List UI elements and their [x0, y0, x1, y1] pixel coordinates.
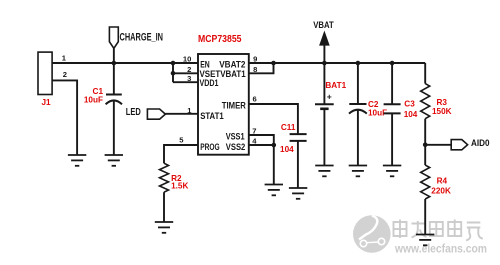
- ground (J1 pin2): [68, 155, 86, 166]
- svg-text:VBAT: VBAT: [313, 20, 334, 31]
- svg-text:C3: C3: [404, 100, 415, 109]
- wire IC pin6 to C11: [249, 104, 298, 134]
- wire LED tag to IC pin1: [165, 113, 198, 115]
- resistor R3: [421, 84, 430, 166]
- svg-text:C11: C11: [281, 123, 296, 132]
- ground (C1): [105, 155, 123, 166]
- junction CHARGE_IN/C1 on rail: [112, 61, 117, 66]
- ground (R2): [155, 222, 173, 233]
- svg-text:PROG: PROG: [200, 142, 220, 153]
- battery BAT1: [315, 63, 334, 166]
- svg-text:R3: R3: [437, 98, 448, 107]
- ground (BAT1): [315, 166, 333, 177]
- svg-text:2: 2: [63, 70, 67, 79]
- svg-text:3: 3: [187, 74, 191, 83]
- svg-text:TIMER: TIMER: [222, 100, 246, 111]
- wire rail corner into R3: [424, 63, 426, 84]
- svg-text:www.elecfans.com: www.elecfans.com: [394, 244, 487, 256]
- junction C2 on rail: [356, 61, 361, 66]
- svg-text:+: +: [327, 92, 332, 102]
- svg-text:R4: R4: [437, 177, 448, 186]
- power port CHARGE_IN: [109, 27, 118, 63]
- op-amp/IC U1 MCP73855 body: [198, 54, 249, 155]
- svg-text:VDD1: VDD1: [200, 78, 220, 89]
- svg-text:104: 104: [404, 110, 418, 119]
- wire IC pin8 riser: [249, 63, 274, 73]
- wire IC pin5 to R2: [164, 145, 198, 163]
- port tag AID0: [451, 140, 467, 150]
- wire IC pin7/pin4 to ground: [249, 135, 274, 185]
- wire riser to IC pins 2,3: [173, 63, 198, 82]
- wire J1 pin2 to ground: [52, 80, 77, 155]
- svg-text:104: 104: [280, 145, 294, 154]
- wire tap to AID0 tag: [425, 144, 451, 146]
- capacitor C2: [349, 63, 367, 166]
- junction VBAT/BAT1 on rail: [322, 61, 327, 66]
- junction riser/pin2: [171, 71, 176, 76]
- capacitor C3: [384, 63, 401, 166]
- resistor R4: [421, 165, 430, 234]
- connector J1: [38, 52, 52, 94]
- junction pin8 riser on rail: [271, 61, 276, 66]
- junction AID0 tap: [423, 143, 428, 148]
- svg-text:2: 2: [187, 65, 191, 74]
- capacitor C11: [290, 134, 307, 188]
- junction C3 on rail: [390, 61, 395, 66]
- junction pins2/3 riser on rail: [171, 61, 176, 66]
- svg-text:MCP73855: MCP73855: [198, 34, 242, 45]
- svg-text:6: 6: [253, 95, 257, 104]
- watermark logo circle: [353, 215, 391, 253]
- power symbol VBAT: [320, 32, 329, 63]
- svg-text:J1: J1: [42, 98, 51, 107]
- ground (C11): [289, 188, 307, 199]
- svg-text:STAT1: STAT1: [200, 111, 224, 122]
- watermark chinese text 电子发烧友: [394, 220, 483, 241]
- svg-text:AID0: AID0: [471, 138, 490, 149]
- svg-text:10uF: 10uF: [84, 95, 103, 104]
- port tag LED: [147, 109, 165, 119]
- wire IC pin9 rail to R3: [249, 62, 425, 64]
- capacitor C1: [106, 63, 122, 155]
- svg-text:VSS2: VSS2: [226, 142, 246, 153]
- ground (VSS pins): [265, 185, 283, 196]
- ground (R4): [416, 235, 434, 246]
- svg-text:10: 10: [183, 55, 191, 64]
- svg-text:150K: 150K: [432, 107, 452, 116]
- svg-text:1.5K: 1.5K: [171, 181, 188, 190]
- wire J1 pin1 to IC pin10 (CHARGE_IN rail): [52, 62, 198, 64]
- junction pin4/riser: [272, 143, 277, 148]
- resistor R2: [160, 163, 169, 222]
- ground (C3): [383, 166, 401, 177]
- svg-text:BAT1: BAT1: [325, 81, 346, 90]
- svg-text:CHARGE_IN: CHARGE_IN: [120, 32, 164, 44]
- svg-text:LED: LED: [126, 107, 141, 118]
- ground (C2): [349, 166, 367, 177]
- svg-text:220K: 220K: [431, 186, 451, 195]
